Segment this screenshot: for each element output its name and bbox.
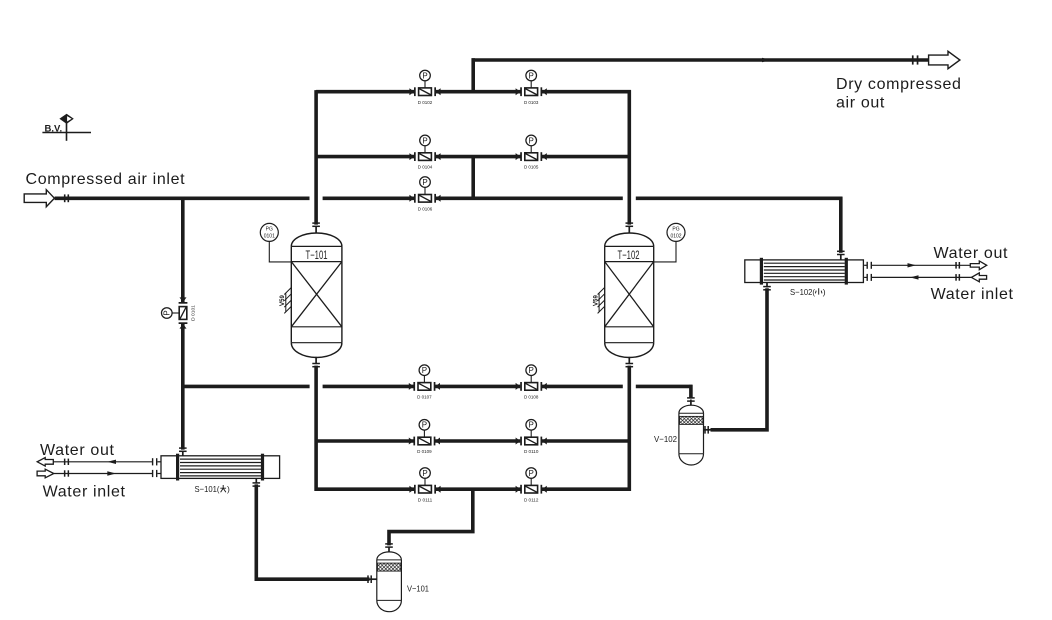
valve D0105 <box>516 135 547 161</box>
svg-text:D 0101: D 0101 <box>191 305 197 321</box>
valve D0102 <box>409 70 440 96</box>
svg-text:B.V.: B.V. <box>45 124 63 135</box>
label D 0109 <box>417 449 432 455</box>
svg-text:D 0108: D 0108 <box>524 395 539 401</box>
flange S-102 top <box>837 251 845 256</box>
water inlet arrow left <box>37 469 54 478</box>
svg-text:D 0110: D 0110 <box>524 449 539 455</box>
valve D0107 <box>409 365 440 391</box>
label Water out left <box>40 442 115 459</box>
svg-text:V−101: V−101 <box>407 584 429 594</box>
label D 0110 <box>524 449 539 455</box>
flange T-101 top <box>312 222 320 227</box>
water inlet arrow right <box>971 273 986 282</box>
flange V-102 top <box>687 397 695 402</box>
wire inlet corner down to S-102 <box>839 197 843 261</box>
water out arrow left <box>37 458 53 467</box>
label T-101 <box>306 250 328 262</box>
svg-text:T−101: T−101 <box>306 250 328 262</box>
svg-text:PG: PG <box>672 226 679 232</box>
svg-text:Dry compressed: Dry compressed <box>836 76 962 93</box>
inlet block arrow <box>24 190 54 207</box>
valve D0112 <box>516 468 547 494</box>
label D 0108 <box>524 395 539 401</box>
svg-text:S−102(: S−102( <box>790 287 815 297</box>
level mark T-102 <box>592 288 604 314</box>
flange ticks water out left <box>64 459 69 465</box>
svg-text:D 0111: D 0111 <box>418 497 433 503</box>
flange S-101 bottom <box>252 482 260 487</box>
valve D0109 <box>409 420 440 446</box>
flange ticks water out left near hx <box>152 458 158 465</box>
label Water inlet left <box>43 483 126 500</box>
label D 0101 <box>191 305 197 321</box>
wire riser from top line to valve row 1 <box>471 58 475 91</box>
flange ticks water inlet left <box>64 470 69 476</box>
pressure gauge PG0102 <box>654 223 685 262</box>
wire top outlet line <box>472 58 930 62</box>
svg-text:Water inlet: Water inlet <box>43 483 126 500</box>
label D 0103 <box>524 100 539 106</box>
valve D0110 <box>516 420 547 446</box>
label D 0105 <box>524 165 539 171</box>
svg-text:0101: 0101 <box>264 233 275 239</box>
separator V-101 <box>377 552 402 612</box>
svg-text:T−102: T−102 <box>618 250 640 262</box>
outlet block arrow <box>929 51 960 68</box>
wire valve row 1 line (D0102/D0103) <box>316 90 631 94</box>
label Water out right <box>934 245 1009 262</box>
label D 0102 <box>418 100 433 106</box>
label D 0112 <box>524 497 539 503</box>
svg-text:Compressed air inlet: Compressed air inlet <box>26 171 186 188</box>
flange ticks inlet <box>64 194 69 202</box>
heat exchanger S-101 <box>161 454 280 481</box>
label D 0104 <box>418 165 433 171</box>
wire branch down to D0101/S-101 <box>181 197 185 457</box>
flange V-102 right <box>704 426 709 434</box>
svg-text:D 0106: D 0106 <box>418 206 433 212</box>
water out line left <box>53 460 161 464</box>
wire S-102 bottom to V-102 <box>704 283 768 430</box>
flange S-102 bottom <box>763 286 771 291</box>
svg-text:D 0107: D 0107 <box>417 395 432 401</box>
wire drop to V-102 <box>689 385 693 406</box>
tower T-101 <box>291 233 342 357</box>
valve D0101 <box>162 297 188 328</box>
heat exchanger S-102 <box>745 258 864 285</box>
wire S-101 bottom to V-101 <box>256 478 377 579</box>
svg-text:): ) <box>227 484 230 494</box>
valve D0108 <box>516 365 547 391</box>
svg-text:D 0104: D 0104 <box>418 165 433 171</box>
svg-text:S−101(: S−101( <box>195 484 220 494</box>
B.V. relief symbol <box>42 114 91 141</box>
flange ticks water out right near hx <box>867 262 873 269</box>
wire valve row 6 line (D0111/D0112) <box>316 487 631 491</box>
valve D0104 <box>409 135 440 161</box>
svg-text:): ) <box>823 287 826 297</box>
flange V-101 inlet <box>367 575 372 583</box>
flange V-101 top <box>385 543 393 548</box>
level mark T-101 <box>279 288 291 314</box>
svg-text:Water out: Water out <box>40 442 115 459</box>
wire inlet line (D0106 row) <box>55 197 843 201</box>
wire valve row 2 line (D0104/D0105) <box>316 155 631 159</box>
water out line right <box>864 263 970 267</box>
svg-text:V−102: V−102 <box>654 434 677 444</box>
wire T-101 bottom riser <box>315 357 317 491</box>
wire T-102 top riser <box>627 90 631 233</box>
svg-text:PG: PG <box>266 226 273 232</box>
pressure gauge PG0101 <box>260 223 291 262</box>
label V-102 <box>654 434 677 444</box>
label Water inlet right <box>931 286 1014 303</box>
flange T-102 bottom <box>626 363 634 368</box>
svg-text:air out: air out <box>836 94 885 111</box>
valve D0103 <box>516 70 547 96</box>
svg-text:0102: 0102 <box>670 233 681 239</box>
svg-text:Ⅴ59: Ⅴ59 <box>279 295 286 307</box>
svg-text:D 0102: D 0102 <box>418 100 433 106</box>
label D 0107 <box>417 395 432 401</box>
flange ticks water inlet right <box>955 274 960 281</box>
wire drain to V-101 <box>389 489 473 552</box>
svg-text:D 0109: D 0109 <box>417 449 432 455</box>
label Compressed air inlet <box>26 171 186 188</box>
flange T-102 top <box>626 222 634 227</box>
wire T-102 bottom riser <box>628 357 630 491</box>
flange S-101 top <box>179 447 187 452</box>
label V-101 <box>407 584 429 594</box>
label S-101 <box>195 484 231 494</box>
separator V-102 <box>679 405 704 465</box>
label D 0106 <box>418 206 433 212</box>
label D 0111 <box>418 497 433 503</box>
svg-text:D 0105: D 0105 <box>524 165 539 171</box>
label T-102 <box>618 250 640 262</box>
svg-text:D 0112: D 0112 <box>524 497 539 503</box>
flange T-101 bottom <box>312 363 320 368</box>
flange ticks water inlet left near hx <box>152 470 158 477</box>
svg-text:Water out: Water out <box>934 245 1009 262</box>
svg-text:Ⅴ59: Ⅴ59 <box>592 295 599 307</box>
wire riser row2 to row3 <box>471 157 475 199</box>
flow arrowhead on top line <box>762 58 771 62</box>
flange ticks water inlet right near hx <box>867 274 873 281</box>
water out arrow right <box>970 261 986 270</box>
valve D0106 <box>409 177 440 203</box>
flange ticks water out right <box>955 262 960 269</box>
water inlet line left <box>54 471 162 475</box>
wire valve row 5 line (D0109/D0110) <box>316 439 631 443</box>
svg-text:Water inlet: Water inlet <box>931 286 1014 303</box>
wire T-101 top riser <box>314 90 318 233</box>
wire valve row 4 line (D0107/D0108) <box>183 385 693 389</box>
tower T-102 <box>605 233 654 357</box>
svg-text:D 0103: D 0103 <box>524 100 539 106</box>
valve D0111 <box>409 468 440 494</box>
flange ticks top outlet <box>912 55 919 64</box>
water inlet line right <box>864 275 971 279</box>
label Dry compressed air out <box>836 76 962 111</box>
label S-102 <box>790 287 826 297</box>
